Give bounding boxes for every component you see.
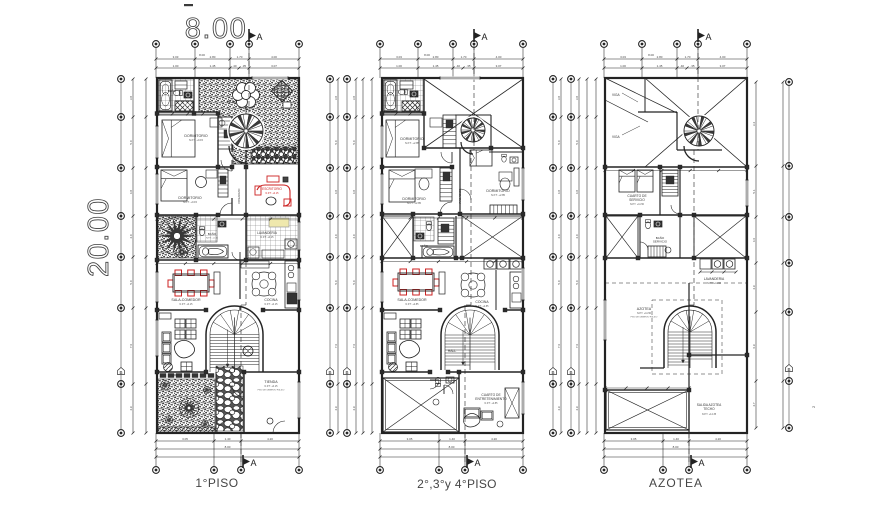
svg-text:5.1: 5.1 — [752, 189, 756, 194]
svg-text:N.P.T. +0.15: N.P.T. +0.15 — [180, 303, 194, 306]
svg-text:1.70: 1.70 — [237, 55, 243, 59]
svg-text:LAVANDERIA: LAVANDERIA — [257, 231, 278, 235]
svg-text:5.0: 5.0 — [557, 140, 561, 145]
svg-text:8.00: 8.00 — [199, 53, 205, 57]
svg-text:N.P.T. +11.50: N.P.T. +11.50 — [707, 282, 722, 285]
svg-text:4.8: 4.8 — [575, 190, 579, 195]
svg-text:2.80: 2.80 — [210, 55, 216, 59]
svg-text:4.9: 4.9 — [352, 406, 356, 411]
svg-text:HALL: HALL — [448, 349, 457, 353]
svg-text:N.P.T. +0.15: N.P.T. +0.15 — [266, 192, 280, 195]
svg-text:3.07: 3.07 — [271, 64, 277, 68]
svg-text:SERVICIO: SERVICIO — [653, 240, 668, 244]
svg-text:4.00: 4.00 — [271, 55, 277, 59]
svg-text:1°PISO: 1°PISO — [195, 476, 238, 490]
svg-text:8.00: 8.00 — [424, 53, 430, 57]
svg-text:5.0: 5.0 — [575, 140, 579, 145]
svg-text:5.0: 5.0 — [352, 280, 356, 285]
svg-text:4.6: 4.6 — [752, 238, 756, 243]
svg-text:4.00: 4.00 — [720, 55, 726, 59]
svg-text:SERVICIO: SERVICIO — [629, 198, 645, 202]
svg-text:3.03: 3.03 — [620, 55, 626, 59]
svg-text:PISO DE CEMENTO PULIDO: PISO DE CEMENTO PULIDO — [631, 317, 658, 319]
svg-text:COCINA: COCINA — [264, 298, 278, 302]
svg-text:3.8: 3.8 — [575, 96, 579, 101]
svg-text:JARDIN: JARDIN — [171, 373, 182, 377]
svg-text:PASADIZO: PASADIZO — [237, 188, 241, 204]
svg-text:5.0: 5.0 — [352, 140, 356, 145]
svg-text:2°,3°y 4°PISO: 2°,3°y 4°PISO — [417, 477, 497, 491]
svg-text:AZOTEA: AZOTEA — [637, 307, 652, 311]
svg-text:5.0: 5.0 — [334, 280, 338, 285]
svg-text:.35: .35 — [242, 64, 247, 68]
svg-text:5.0: 5.0 — [557, 280, 561, 285]
svg-text:N.P.T. +0.15: N.P.T. +0.15 — [206, 238, 219, 240]
svg-text:DORMITORIO: DORMITORIO — [184, 134, 207, 138]
svg-text:7.6: 7.6 — [352, 344, 356, 349]
svg-text:DORMITORIO: DORMITORIO — [178, 196, 201, 200]
svg-text:7.6: 7.6 — [557, 344, 561, 349]
svg-text:N.P.T. +2.85: N.P.T. +2.85 — [491, 193, 506, 197]
svg-text:N.P.T. +2.85: N.P.T. +2.85 — [405, 141, 420, 145]
svg-text:N.P.T. +0.15: N.P.T. +0.15 — [265, 303, 279, 306]
svg-text:3.4: 3.4 — [752, 122, 756, 127]
svg-text:4.0: 4.0 — [352, 234, 356, 239]
svg-text:PATIO: PATIO — [227, 100, 237, 104]
svg-text:TIENDA: TIENDA — [264, 380, 278, 384]
svg-text:7.6: 7.6 — [334, 344, 338, 349]
svg-text:N.P.T. +2.85: N.P.T. +2.85 — [406, 303, 420, 306]
svg-text:3.8: 3.8 — [352, 96, 356, 101]
svg-text:SALA-COMEDOR: SALA-COMEDOR — [397, 298, 427, 302]
svg-text:1.40: 1.40 — [673, 437, 679, 441]
svg-text:3.03: 3.03 — [173, 55, 179, 59]
svg-text:ESCRITORIO: ESCRITORIO — [262, 187, 282, 191]
svg-text:8.00: 8.00 — [648, 53, 654, 57]
svg-text:1.70: 1.70 — [685, 55, 691, 59]
svg-text:1.45: 1.45 — [433, 64, 439, 68]
svg-text:BAÑO: BAÑO — [168, 88, 177, 93]
svg-text:8.00: 8.00 — [449, 445, 455, 449]
svg-text:7.6: 7.6 — [575, 344, 579, 349]
svg-text:1.00: 1.00 — [173, 64, 179, 68]
svg-text:5.0: 5.0 — [334, 140, 338, 145]
svg-text:4.9: 4.9 — [752, 285, 756, 290]
svg-text:3.8: 3.8 — [129, 96, 133, 101]
svg-text:4.8: 4.8 — [129, 190, 133, 195]
svg-text:3.05: 3.05 — [182, 437, 188, 441]
svg-text:4.8: 4.8 — [557, 190, 561, 195]
svg-text:4.8: 4.8 — [352, 190, 356, 195]
svg-text:.35: .35 — [690, 64, 695, 68]
svg-text:4.9: 4.9 — [334, 406, 338, 411]
svg-text:1.00: 1.00 — [620, 64, 626, 68]
svg-text:4.20: 4.20 — [267, 437, 273, 441]
svg-text:ENTRETENIMIENTO: ENTRETENIMIENTO — [475, 397, 507, 401]
svg-text:DORMITORIO: DORMITORIO — [486, 189, 509, 193]
svg-text:3.8: 3.8 — [334, 96, 338, 101]
svg-text:1.45: 1.45 — [210, 64, 216, 68]
svg-text:AZOTEA: AZOTEA — [649, 476, 703, 490]
svg-text:1.00: 1.00 — [396, 64, 402, 68]
svg-text:DORMITORIO: DORMITORIO — [400, 137, 423, 141]
svg-text:4.9: 4.9 — [557, 406, 561, 411]
svg-text:7.6: 7.6 — [129, 344, 133, 349]
svg-text:3.05: 3.05 — [407, 437, 413, 441]
svg-text:5.0: 5.0 — [575, 280, 579, 285]
svg-text:20.00: 20.00 — [83, 197, 115, 277]
svg-text:4.0: 4.0 — [575, 234, 579, 239]
svg-text:VIGA: VIGA — [612, 93, 620, 97]
svg-text:TECHO: TECHO — [703, 407, 715, 411]
svg-text:5.0: 5.0 — [129, 280, 133, 285]
svg-text:BAÑO: BAÑO — [208, 231, 217, 236]
svg-text:3.05: 3.05 — [631, 437, 637, 441]
svg-text:1.40: 1.40 — [225, 437, 231, 441]
svg-text:N.P.T. +11.50: N.P.T. +11.50 — [630, 203, 645, 206]
svg-text:1.40: 1.40 — [449, 437, 455, 441]
svg-text:4.8: 4.8 — [334, 190, 338, 195]
svg-text:N.P.T. +0.15: N.P.T. +0.15 — [189, 138, 204, 142]
svg-text:LAVANDERIA: LAVANDERIA — [704, 277, 725, 281]
svg-text:3.03: 3.03 — [396, 55, 402, 59]
svg-text:4.0: 4.0 — [334, 234, 338, 239]
svg-text:4.0: 4.0 — [557, 234, 561, 239]
svg-text:3.07: 3.07 — [496, 64, 502, 68]
svg-text:N.P.T. +2.85: N.P.T. +2.85 — [485, 402, 499, 405]
svg-text:COCINA: COCINA — [475, 300, 489, 304]
svg-text:4.7: 4.7 — [752, 402, 756, 407]
svg-text:SALA-COMEDOR: SALA-COMEDOR — [171, 298, 201, 302]
svg-text:6.9: 6.9 — [752, 344, 756, 349]
svg-text:.35: .35 — [466, 64, 471, 68]
svg-text:N.P.T. +0.15: N.P.T. +0.15 — [183, 200, 198, 204]
svg-text:.40: .40 — [456, 64, 461, 68]
svg-text:4.00: 4.00 — [496, 55, 502, 59]
svg-text:2.80: 2.80 — [657, 55, 663, 59]
svg-text:N.P.T. +0.15: N.P.T. +0.15 — [261, 236, 275, 239]
svg-text:N.P.T. +14.35: N.P.T. +14.35 — [702, 413, 717, 416]
svg-text:4.20: 4.20 — [715, 437, 721, 441]
svg-text:4.20: 4.20 — [491, 437, 497, 441]
svg-text:N.P.T. +0.15: N.P.T. +0.15 — [265, 385, 279, 388]
svg-text:8.00: 8.00 — [225, 445, 231, 449]
svg-text:.40: .40 — [680, 64, 685, 68]
svg-text:.40: .40 — [232, 64, 237, 68]
svg-text:DORMITORIO: DORMITORIO — [402, 197, 425, 201]
svg-text:3.8: 3.8 — [557, 96, 561, 101]
svg-text:4.0: 4.0 — [129, 234, 133, 239]
svg-text:5.0: 5.0 — [129, 140, 133, 145]
svg-text:N.P.T. +11.50: N.P.T. +11.50 — [637, 312, 652, 315]
svg-text:VIGA: VIGA — [612, 135, 620, 139]
svg-text:3.07: 3.07 — [720, 64, 726, 68]
svg-text:PISO DE CEMENTO PULIDO: PISO DE CEMENTO PULIDO — [258, 390, 285, 392]
svg-text:1.70: 1.70 — [461, 55, 467, 59]
svg-text:2.80: 2.80 — [433, 55, 439, 59]
svg-text:4.9: 4.9 — [575, 406, 579, 411]
svg-text:1.45: 1.45 — [657, 64, 663, 68]
svg-text:8.00: 8.00 — [673, 445, 679, 449]
svg-text:N.P.T. +2.85: N.P.T. +2.85 — [407, 201, 422, 205]
svg-text:4.9: 4.9 — [129, 406, 133, 411]
